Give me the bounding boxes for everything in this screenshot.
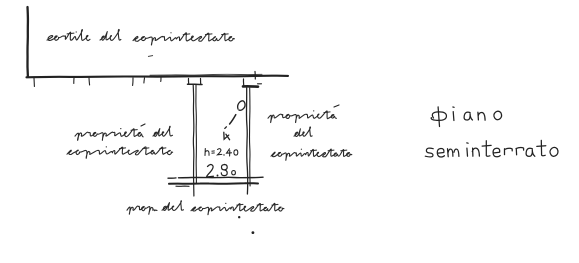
title piano [431, 107, 501, 127]
stray mark [148, 56, 153, 57]
dimension text h=2.40 [205, 149, 238, 157]
ground line horizontal [27, 76, 289, 78]
floor line lower [169, 183, 258, 186]
wall left-boundary vertical [26, 7, 29, 77]
ground line overdraw [150, 73, 262, 76]
floor line upper [168, 177, 263, 178]
text prop. del soprintestato (bottom) [127, 201, 284, 215]
ink dot b [252, 231, 255, 234]
text proprieta (right) [268, 105, 339, 123]
text cortile del soprintestato [47, 29, 234, 44]
text soprintestato (right) [271, 149, 352, 161]
title seminterrato [425, 140, 558, 157]
hatch ticks under ground line [34, 77, 161, 87]
ink dot a [238, 216, 240, 218]
text soprintestato (left) [67, 146, 173, 158]
wall left pier with capital [188, 79, 203, 197]
text del (right) [294, 127, 312, 136]
dimension text 2.80 [207, 165, 236, 178]
wall right pier with capital [243, 72, 262, 195]
text proprieta del (left) [75, 124, 173, 140]
dimension text 4.10 diagonal [221, 101, 245, 142]
